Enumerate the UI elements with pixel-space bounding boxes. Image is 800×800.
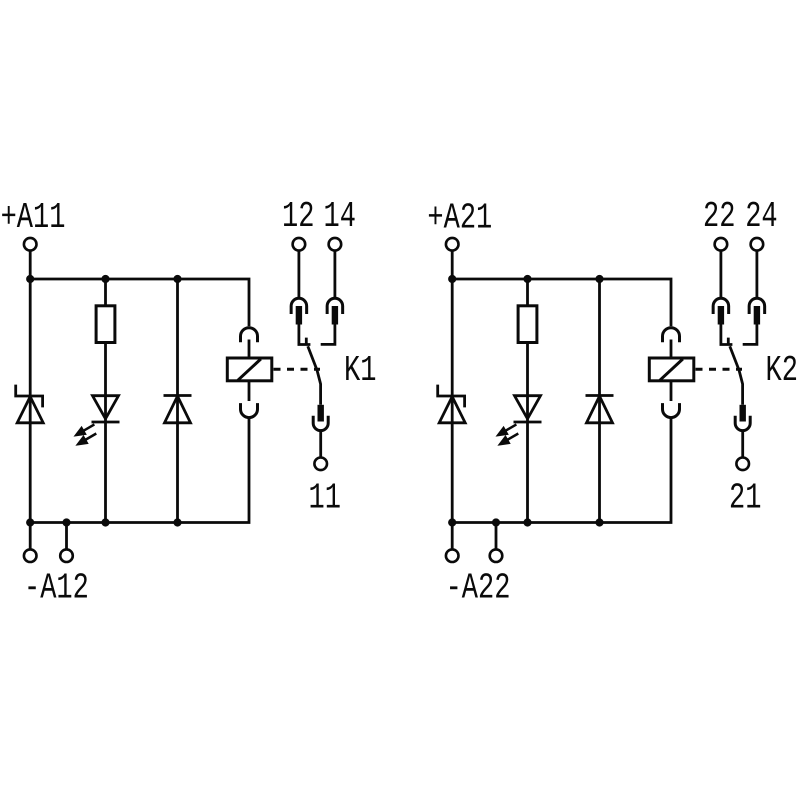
- wire bottom rail to terminal -A22a: [451, 523, 454, 550]
- node top rail at x600: [595, 275, 603, 283]
- contact pin 14: [332, 306, 338, 325]
- wire terminal 14 down: [333, 251, 336, 298]
- terminal +A11: [24, 238, 37, 251]
- diode D1b triangle: [165, 396, 191, 423]
- zener diode Z2 triangle: [439, 397, 465, 423]
- plug-in connector contact 14: [327, 298, 343, 314]
- node bottom rail at x30: [26, 518, 34, 526]
- node top rail at x30: [26, 275, 34, 283]
- contact pin common 21: [740, 405, 746, 422]
- plug-in connector below relay coil K2: [663, 403, 680, 418]
- wire terminal 12 down: [297, 251, 300, 298]
- LED D2a triangle: [515, 396, 541, 419]
- node top rail at x452: [448, 275, 456, 283]
- wire plug to terminal 21: [741, 431, 744, 458]
- LED D2a emission arrow 1: [498, 424, 516, 435]
- svg-text:11: 11: [309, 477, 341, 518]
- wire terminal 24 down: [756, 251, 759, 298]
- node bottom rail at x528: [523, 518, 531, 526]
- terminal -A22 left: [446, 549, 459, 562]
- wire terminal +A11 to top rail: [29, 251, 32, 279]
- wire resistor to bottom rail through LED: [526, 343, 529, 523]
- actuation dashed link coil K1 to blade: [274, 368, 321, 371]
- node top rail at x528: [523, 275, 531, 283]
- plug-in connector contact 22: [713, 298, 729, 314]
- resistor R2: [518, 306, 537, 343]
- plug-in connector contact 21: [735, 416, 750, 431]
- LED D2a cathode bar: [514, 421, 542, 424]
- zener diode Z2 cathode bar: [438, 385, 465, 408]
- contact pin 12: [296, 306, 302, 325]
- terminal 12: [293, 238, 306, 251]
- LED D2a emission arrow 2: [500, 434, 518, 445]
- wire bottom rail to terminal -A12a: [29, 523, 32, 550]
- node bottom rail at x106: [101, 518, 109, 526]
- wire diode branch vertical: [598, 279, 601, 523]
- diode D1b cathode bar: [164, 394, 192, 397]
- contact pin 22: [718, 306, 724, 325]
- terminal 22: [715, 238, 728, 251]
- zener diode Z1 triangle: [17, 397, 43, 423]
- zener diode Z1 cathode bar: [16, 385, 43, 408]
- LED D1a cathode bar: [92, 421, 120, 424]
- switch blade K1: [308, 346, 321, 405]
- NC contact seat 22: [721, 325, 733, 345]
- wire terminal +A21 to top rail: [451, 251, 454, 279]
- svg-text:12: 12: [282, 196, 314, 237]
- node bottom rail at x178: [173, 518, 181, 526]
- wire bottom rail to terminal -A12b: [65, 523, 68, 550]
- diode D2b cathode bar: [586, 394, 614, 397]
- resistor R1: [96, 306, 115, 343]
- wire bottom rail to terminal -A22b: [495, 523, 498, 550]
- svg-text:22: 22: [703, 196, 735, 237]
- plug-in connector contact 24: [749, 298, 765, 314]
- terminal -A12 left: [24, 549, 37, 562]
- bottom rail: [452, 418, 671, 523]
- svg-text:21: 21: [729, 477, 761, 518]
- wire plug to coil: [248, 340, 251, 359]
- node bottom rail at x66: [62, 518, 70, 526]
- svg-text:14: 14: [324, 196, 356, 237]
- wire top rail to resistor: [104, 279, 107, 306]
- switch blade K2: [730, 346, 743, 405]
- terminal +A21: [446, 238, 459, 251]
- plug-in connector above relay coil K1: [241, 328, 258, 343]
- svg-text:-A12: -A12: [24, 568, 89, 609]
- NO contact seat 24: [743, 325, 757, 345]
- svg-text:+A21: +A21: [427, 198, 492, 239]
- wire coil to lower plug: [670, 381, 673, 401]
- terminal -A22 right: [490, 549, 503, 562]
- wire coil to lower plug: [248, 381, 251, 401]
- wire diode branch vertical: [176, 279, 179, 523]
- node bottom rail at x496: [492, 518, 500, 526]
- wire zener branch vertical: [451, 279, 454, 523]
- top rail: [30, 279, 249, 326]
- plug-in connector above relay coil K2: [663, 328, 680, 343]
- node bottom rail at x600: [595, 518, 603, 526]
- node top rail at x106: [101, 275, 109, 283]
- svg-text:-A22: -A22: [446, 568, 511, 609]
- wire plug to terminal 11: [319, 431, 322, 458]
- wire plug to coil: [670, 340, 673, 359]
- contact pin 24: [754, 306, 760, 325]
- node bottom rail at x452: [448, 518, 456, 526]
- plug-in connector contact 11: [313, 416, 328, 431]
- NC contact seat 12: [299, 325, 311, 345]
- LED D1a emission arrow 1: [76, 424, 94, 435]
- wire top rail to resistor: [526, 279, 529, 306]
- relay coil K2: [649, 358, 694, 381]
- svg-text:24: 24: [745, 196, 777, 237]
- contact pin common 11: [318, 405, 324, 422]
- terminal -A12 right: [60, 549, 73, 562]
- diode D2b triangle: [587, 396, 613, 423]
- terminal 14: [329, 238, 342, 251]
- bottom rail: [30, 418, 249, 523]
- top rail: [452, 279, 671, 326]
- plug-in connector below relay coil K1: [241, 403, 258, 418]
- wire zener branch vertical: [29, 279, 32, 523]
- wire terminal 22 down: [720, 251, 723, 298]
- LED D1a emission arrow 2: [78, 434, 96, 445]
- terminal 24: [751, 238, 764, 251]
- plug-in connector contact 12: [291, 298, 307, 314]
- terminal 21: [736, 458, 749, 471]
- svg-text:K1: K1: [344, 350, 376, 391]
- NO contact seat 14: [321, 325, 335, 345]
- relay coil K1: [227, 358, 271, 381]
- node top rail at x178: [173, 275, 181, 283]
- LED D1a triangle: [93, 396, 119, 419]
- actuation dashed link coil K2 to blade: [696, 368, 743, 371]
- terminal 11: [314, 458, 327, 471]
- svg-text:K2: K2: [766, 350, 798, 391]
- svg-text:+A11: +A11: [1, 197, 66, 238]
- wire resistor to bottom rail through LED: [104, 343, 107, 523]
